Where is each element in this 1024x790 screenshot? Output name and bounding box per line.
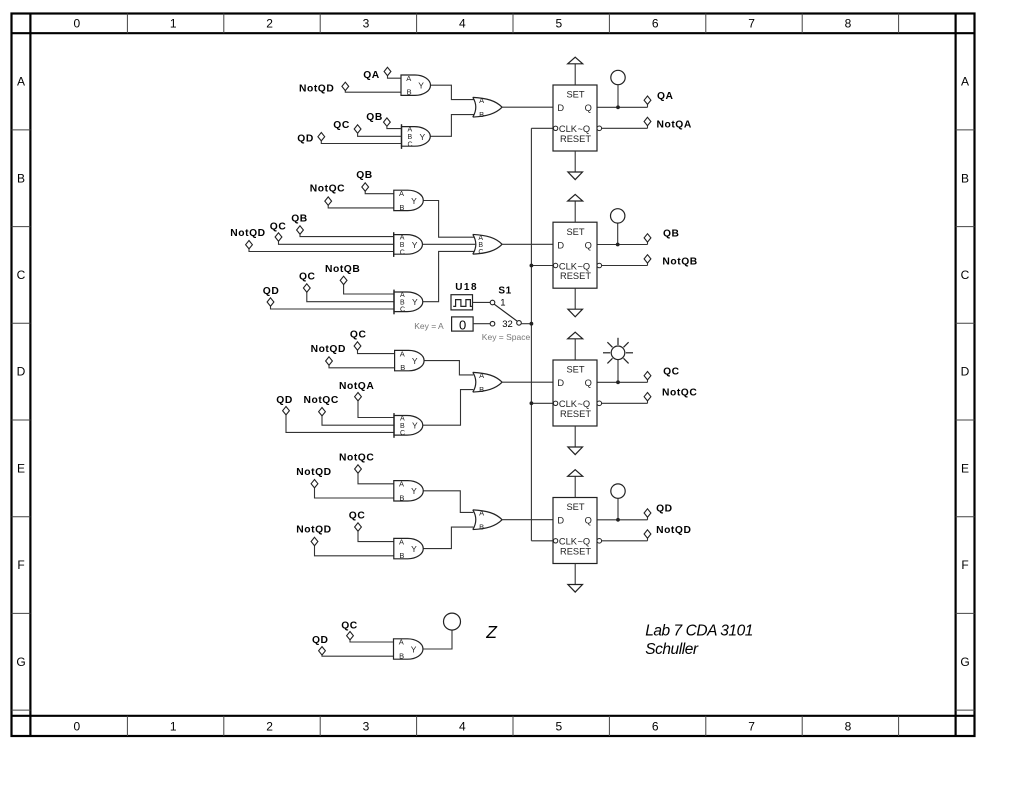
connector diamond NotQD input of U12 (311, 537, 318, 545)
D flip-flop FF3 (553, 360, 602, 426)
wire clock bus to FF3 CLK (531, 402, 553, 404)
VCC arrow above FF1 (568, 57, 583, 85)
connector diamond NotQC output (644, 393, 651, 401)
stem NotQA output diamond (647, 125, 649, 129)
AND gate U14 (394, 638, 423, 661)
wire U2 output to U3 input B (430, 115, 475, 137)
connector diamond NotQD input of U11 (311, 480, 318, 488)
wire QC to U14 input A (350, 640, 394, 642)
wire U5 output to U6 input B (422, 243, 475, 245)
svg-text:B: B (479, 110, 484, 119)
connector diamond NotQD output (644, 530, 651, 538)
connector diamond QC output (644, 372, 651, 380)
S1 switch blade (494, 304, 517, 321)
connector diamond QD input of U9 (283, 407, 290, 415)
stem QD output diamond (647, 516, 649, 520)
wire S1 to clock bus (521, 323, 531, 325)
constant 0 box (452, 317, 474, 333)
frame row divider ticks (12, 130, 975, 710)
probe Z (444, 613, 461, 630)
wire QC to U5 input B (279, 241, 394, 245)
svg-text:G: G (960, 655, 969, 669)
svg-text:SET: SET (566, 227, 584, 237)
wire QB to U4 input A (365, 191, 394, 194)
wire QC to U12 input A (358, 531, 394, 542)
AND gate U4 (394, 189, 424, 212)
connector diamond NotQA input of U9 (355, 393, 362, 401)
svg-text:A: A (399, 638, 404, 647)
svg-text:QC: QC (333, 120, 350, 131)
XOR gate U6 (473, 234, 502, 256)
svg-text:2: 2 (266, 16, 273, 30)
svg-text:Y: Y (420, 132, 426, 142)
svg-text:QB: QB (366, 112, 383, 123)
stem QC output diamond (647, 379, 649, 383)
svg-text:~Q: ~Q (578, 537, 591, 547)
svg-text:5: 5 (555, 16, 562, 30)
wire NotQC to U9 input B (322, 416, 394, 426)
svg-text:B: B (400, 423, 405, 430)
svg-text:Key = Space: Key = Space (482, 332, 531, 342)
svg-text:QC: QC (350, 330, 367, 341)
connector diamond NotQC input of U4 (325, 197, 332, 205)
svg-text:1: 1 (170, 720, 177, 734)
svg-text:A: A (479, 508, 484, 517)
ground arrow below FF2 (568, 288, 583, 317)
svg-text:QD: QD (312, 635, 329, 646)
svg-text:C: C (400, 430, 405, 437)
connector diamond QC input of U2 (354, 125, 361, 133)
ground arrow below FF4 (568, 564, 583, 593)
wire QA to U1 input A (388, 75, 402, 78)
svg-text:~Q: ~Q (578, 124, 591, 134)
wire FF3 Q output (597, 381, 648, 383)
svg-text:QC: QC (663, 367, 680, 378)
svg-text:NotQC: NotQC (662, 388, 697, 399)
svg-text:QC: QC (299, 272, 316, 283)
svg-text:A: A (479, 96, 484, 105)
junction FF3 Q / lamp (616, 380, 620, 384)
wire U13 output to FF4 D (502, 519, 553, 521)
connector diamond QD output (644, 509, 651, 517)
svg-text:F: F (17, 558, 24, 572)
wire U7 output to U6 input C (423, 251, 476, 301)
svg-text:Key = A: Key = A (414, 321, 444, 331)
svg-text:B: B (399, 551, 404, 560)
svg-text:C: C (400, 249, 405, 256)
wire QD to U7 input C (271, 306, 395, 309)
ground arrow below FF1 (568, 151, 583, 180)
wire QD to U9 input C (286, 415, 394, 433)
connector diamond NotQB output (644, 255, 651, 263)
wire FF2 Q output (597, 244, 648, 246)
svg-text:CLK: CLK (559, 399, 578, 409)
svg-text:RESET: RESET (560, 409, 591, 419)
svg-text:B: B (399, 652, 404, 661)
svg-text:B: B (961, 171, 969, 185)
svg-text:B: B (478, 242, 483, 249)
svg-text:G: G (16, 655, 25, 669)
svg-text:QD: QD (276, 395, 293, 406)
svg-text:B: B (399, 493, 404, 502)
svg-text:Y: Y (412, 297, 418, 307)
AND gate U8 (395, 349, 425, 372)
frame bottom footer strip line (12, 715, 975, 717)
svg-text:D: D (557, 378, 564, 388)
svg-text:QD: QD (263, 286, 280, 297)
svg-text:0: 0 (73, 16, 80, 30)
svg-text:NotQD: NotQD (296, 524, 331, 535)
svg-text:QB: QB (356, 170, 373, 181)
junction FF4 Q / probe (616, 518, 620, 522)
svg-text:A: A (408, 126, 413, 133)
connector diamond QC input of U5 (275, 233, 282, 241)
svg-text:32: 32 (502, 319, 513, 330)
svg-text:U18: U18 (455, 282, 478, 293)
svg-text:NotQD: NotQD (230, 228, 265, 239)
AND gate U5 (394, 232, 423, 257)
svg-text:D: D (557, 240, 564, 250)
wire QB to U5 input A (300, 234, 394, 237)
svg-text:B: B (408, 134, 413, 141)
svg-text:B: B (400, 242, 405, 249)
svg-text:Schuller: Schuller (645, 641, 699, 658)
svg-text:S1: S1 (498, 286, 511, 297)
wire NotQB to U7 input A (344, 284, 394, 294)
svg-text:B: B (399, 203, 404, 212)
stem QB output diamond (647, 241, 649, 245)
XOR gate U3 (473, 96, 502, 119)
svg-text:CLK: CLK (559, 261, 578, 271)
svg-text:1: 1 (500, 298, 505, 309)
svg-text:8: 8 (845, 720, 852, 734)
wire U3 output to FF1 D (502, 106, 553, 108)
wire FF2 ~Q output (602, 265, 648, 267)
svg-text:NotQD: NotQD (296, 467, 331, 478)
lamp probe on QC (603, 338, 633, 383)
svg-text:C: C (408, 141, 413, 148)
frame row letters A-G (16, 75, 969, 669)
frame top header strip line (12, 32, 975, 34)
svg-text:Y: Y (412, 356, 418, 366)
connector diamond QC input of U14 (347, 632, 354, 640)
svg-text:A: A (400, 234, 405, 241)
svg-text:1: 1 (170, 16, 177, 30)
svg-text:NotQC: NotQC (310, 183, 345, 194)
svg-text:SET: SET (566, 365, 584, 375)
clock bus vertical net (530, 128, 532, 541)
svg-text:A: A (17, 75, 25, 89)
connector diamond QD input of U2 (318, 133, 325, 141)
svg-text:D: D (17, 365, 26, 379)
svg-text:RESET: RESET (560, 134, 591, 144)
svg-text:A: A (399, 537, 404, 546)
svg-text:SET: SET (566, 90, 584, 100)
wire FF1 Q output (597, 106, 648, 108)
svg-text:NotQD: NotQD (311, 344, 346, 355)
wire QC to U2 input B (358, 133, 402, 137)
junction S1 / clock bus (530, 322, 534, 326)
VCC arrow above FF4 (568, 470, 583, 498)
svg-text:C: C (400, 307, 405, 314)
svg-text:Z: Z (485, 622, 498, 642)
svg-text:QD: QD (656, 504, 673, 515)
svg-text:B: B (479, 522, 484, 531)
wire FF4 Q output (597, 519, 648, 521)
wire clock bus to FF4 CLK (531, 540, 553, 542)
svg-text:3: 3 (363, 720, 370, 734)
svg-text:B: B (400, 363, 405, 372)
wire NotQD to U5 input C (249, 248, 394, 251)
wire NotQC to U11 input A (358, 473, 394, 484)
wire FF3 ~Q output (602, 402, 648, 404)
frame right letter strip line (954, 14, 956, 737)
svg-text:~Q: ~Q (578, 399, 591, 409)
wire U14 output to probe Z (423, 630, 452, 649)
connector diamond QB output (644, 234, 651, 242)
svg-text:4: 4 (459, 16, 466, 30)
svg-text:RESET: RESET (560, 547, 591, 557)
connector diamond QC input of U7 (303, 284, 310, 292)
wire QC to U7 input B (307, 292, 394, 302)
svg-text:4: 4 (459, 720, 466, 734)
svg-text:F: F (961, 558, 968, 572)
ground arrow below FF3 (568, 426, 583, 455)
wire U12 output to U13 input B (423, 527, 473, 549)
svg-text:A: A (399, 480, 404, 489)
AND gate U1 (401, 74, 430, 97)
svg-text:A: A (478, 235, 483, 242)
stem NotQB output diamond (647, 262, 649, 266)
D flip-flop FF1 (553, 85, 602, 151)
connector diamond NotQB input of U7 (340, 276, 347, 284)
frame left letter strip line (29, 14, 31, 737)
svg-text:QC: QC (349, 510, 366, 521)
svg-text:6: 6 (652, 720, 659, 734)
junction FF2 Q / probe (616, 243, 620, 247)
XOR gate U13 (473, 508, 502, 531)
svg-text:NotQB: NotQB (662, 257, 697, 268)
svg-text:B: B (17, 171, 25, 185)
svg-text:3: 3 (363, 16, 370, 30)
svg-text:A: A (399, 189, 404, 198)
svg-text:C: C (961, 268, 970, 282)
stem NotQC output diamond (647, 400, 649, 404)
svg-text:Y: Y (412, 421, 418, 431)
svg-text:D: D (961, 365, 970, 379)
clock source U18 box (451, 295, 473, 310)
connector diamond QC input of U8 (354, 342, 361, 350)
svg-text:NotQC: NotQC (339, 453, 374, 464)
wire U11 output to U13 input A (423, 491, 473, 513)
wire U10 output to FF3 D (502, 381, 553, 383)
wire U18 to S1 contact (473, 301, 491, 303)
svg-text:0: 0 (459, 317, 466, 332)
junction FF1 Q / probe (616, 105, 620, 109)
wire U8 output to U10 input A (424, 361, 474, 375)
junction clock bus / FF2 CLK (530, 264, 534, 268)
S1 contact circle 32-left (490, 321, 495, 326)
svg-text:C: C (478, 249, 483, 256)
wire 0-box to S1 contact (473, 323, 490, 325)
wire QB to U2 input A (387, 126, 402, 129)
svg-text:B: B (400, 299, 405, 306)
svg-text:QC: QC (341, 620, 358, 631)
stem NotQD output diamond (647, 537, 649, 541)
svg-text:Y: Y (411, 196, 417, 206)
frame column numbers 0-8 (73, 16, 851, 733)
svg-text:NotQA: NotQA (657, 120, 692, 131)
svg-text:C: C (17, 268, 26, 282)
svg-text:A: A (961, 75, 969, 89)
svg-text:RESET: RESET (560, 271, 591, 281)
AND gate U12 (394, 537, 423, 560)
wire FF4 ~Q output (602, 540, 648, 542)
svg-text:QA: QA (657, 91, 674, 102)
svg-text:Lab 7 CDA 3101: Lab 7 CDA 3101 (645, 623, 753, 640)
wire NotQD to U8 input B (329, 365, 395, 368)
junction clock bus / FF3 CLK (530, 401, 534, 405)
probe X2 on QB (611, 209, 625, 245)
frame column divider ticks (127, 14, 898, 737)
D flip-flop FF2 (553, 222, 602, 288)
wire NotQD to U12 input B (315, 545, 394, 556)
wire U9 output to U10 input B (423, 390, 474, 426)
AND gate U9 (394, 413, 423, 438)
wire clock bus to FF1 CLK (531, 127, 553, 129)
connector diamond QB input of U2 (384, 118, 391, 126)
AND gate U2 (402, 124, 431, 149)
svg-text:0: 0 (73, 720, 80, 734)
svg-text:6: 6 (652, 16, 659, 30)
wire FF1 ~Q output (602, 127, 648, 129)
svg-text:E: E (17, 461, 25, 475)
svg-text:Q: Q (585, 516, 592, 526)
probe X1 on QA (611, 70, 625, 107)
svg-text:NotQB: NotQB (325, 264, 360, 275)
wire NotQA to U9 input A (358, 401, 394, 418)
wire U1 output to U3 input A (430, 85, 475, 99)
svg-text:QB: QB (291, 214, 308, 225)
svg-text:Q: Q (585, 103, 592, 113)
svg-text:7: 7 (748, 720, 755, 734)
svg-text:B: B (407, 88, 412, 97)
XOR gate U10 (473, 371, 502, 394)
connector diamond NotQC input of U9 (319, 408, 326, 416)
svg-text:A: A (406, 74, 411, 83)
connector diamond QB input of U4 (362, 183, 369, 191)
connector diamond QA output (644, 96, 651, 104)
AND gate U11 (394, 480, 423, 503)
AND gate U7 (394, 290, 423, 315)
svg-text:SET: SET (566, 502, 584, 512)
connector diamond QD input of U7 (267, 298, 274, 306)
wire QD to U14 input B (322, 655, 394, 657)
svg-text:~Q: ~Q (578, 261, 591, 271)
svg-text:7: 7 (748, 16, 755, 30)
S1 contact circle 32-right (517, 321, 522, 326)
wire NotQD to U1 input B (345, 90, 401, 92)
stem QA output diamond (647, 104, 649, 108)
svg-text:Y: Y (411, 644, 417, 654)
svg-text:CLK: CLK (559, 124, 578, 134)
svg-text:QC: QC (270, 221, 287, 232)
wire QD to U2 input C (321, 140, 401, 143)
svg-text:D: D (557, 516, 564, 526)
svg-text:Y: Y (412, 240, 418, 250)
wire NotQC to U4 input B (328, 205, 394, 208)
svg-text:D: D (557, 103, 564, 113)
connector diamond NotQA output (644, 117, 651, 125)
VCC arrow above FF3 (568, 332, 583, 360)
svg-text:QB: QB (663, 229, 680, 240)
svg-text:A: A (400, 292, 405, 299)
VCC arrow above FF2 (568, 194, 583, 222)
svg-text:Y: Y (411, 486, 417, 496)
connector diamond QA input of U1 (384, 67, 391, 75)
svg-text:A: A (400, 415, 405, 422)
svg-text:A: A (400, 349, 405, 358)
svg-text:NotQD: NotQD (299, 83, 334, 94)
svg-text:CLK: CLK (559, 537, 578, 547)
svg-text:NotQC: NotQC (304, 395, 339, 406)
svg-text:5: 5 (555, 720, 562, 734)
connector diamond QD input of U14 (319, 647, 326, 655)
svg-text:NotQA: NotQA (339, 381, 374, 392)
wire U4 output to U6 input A (423, 201, 475, 238)
svg-text:B: B (479, 385, 484, 394)
svg-text:NotQD: NotQD (656, 525, 691, 536)
probe X3 on QD (611, 484, 625, 520)
wire NotQD to U11 input B (315, 488, 394, 499)
connector diamond QC input of U12 (355, 523, 362, 531)
connector diamond NotQD input of U8 (326, 357, 333, 365)
wire clock bus to FF2 CLK (531, 265, 553, 267)
D flip-flop FF4 (553, 498, 602, 564)
connector diamond NotQD input of U1 (342, 82, 349, 90)
svg-text:8: 8 (845, 16, 852, 30)
connector diamond NotQD input of U5 (246, 241, 253, 249)
svg-text:QD: QD (297, 133, 314, 144)
svg-text:QA: QA (363, 70, 380, 81)
svg-text:2: 2 (266, 720, 273, 734)
svg-text:Y: Y (411, 544, 417, 554)
connector diamond QB input of U5 (297, 226, 304, 234)
svg-text:Y: Y (418, 81, 424, 91)
svg-text:Q: Q (585, 378, 592, 388)
connector diamond NotQC input of U11 (355, 465, 362, 473)
wire U6 output to FF2 D (502, 243, 553, 245)
svg-text:E: E (961, 461, 969, 475)
S1 contact circle 1 (490, 300, 495, 305)
wire QC to U8 input A (358, 350, 395, 354)
svg-text:Q: Q (585, 240, 592, 250)
svg-text:A: A (479, 371, 484, 380)
